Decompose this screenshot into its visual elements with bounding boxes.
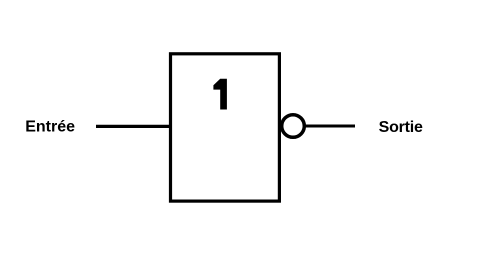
inversion bubble: [282, 115, 305, 138]
input wire (net Entrée): [96, 125, 172, 128]
svg-text:Sortie: Sortie: [379, 119, 423, 136]
NOT gate U1 body (IEC rectangle): [171, 54, 280, 201]
svg-text:Entrée: Entrée: [25, 119, 75, 136]
gate function label "1": [213, 79, 227, 110]
output wire (net Sortie): [306, 125, 356, 128]
